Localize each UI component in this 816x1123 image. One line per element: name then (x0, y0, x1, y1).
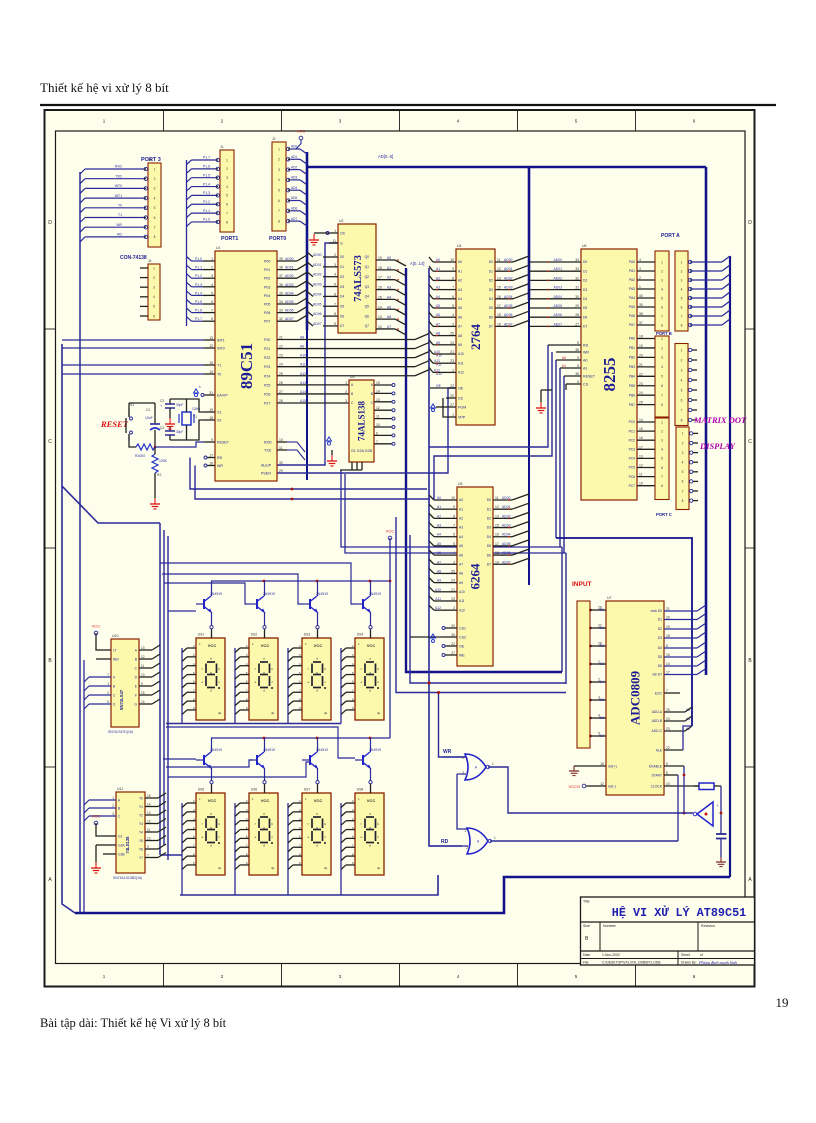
svg-text:30: 30 (575, 295, 579, 299)
svg-text:INT0: INT0 (115, 184, 122, 188)
svg-text:12: 12 (639, 464, 643, 468)
svg-text:A5: A5 (458, 306, 462, 310)
svg-text:22: 22 (451, 642, 455, 646)
wire T0 row (62, 373, 204, 375)
pin OE of 6264 (445, 645, 457, 647)
svg-text:1: 1 (639, 285, 641, 289)
wire clock RC node (720, 786, 722, 834)
svg-text:IN6: IN6 (599, 716, 604, 720)
pin P0.5 of 89C51 with AD05 net (277, 303, 297, 305)
seven segment display DS4 (355, 638, 384, 720)
wire PORT1 pin 7 (192, 212, 217, 214)
svg-text:5: 5 (661, 296, 663, 300)
svg-text:1: 1 (452, 413, 454, 417)
pin G of 74ALS573 (329, 242, 338, 244)
svg-text:AD00: AD00 (285, 257, 294, 261)
svg-text:6: 6 (226, 203, 228, 207)
pin Y4 of U11 (145, 831, 158, 833)
svg-text:13: 13 (147, 811, 151, 815)
pin D2 of 6264 net AD02 (493, 517, 512, 519)
svg-text:A6: A6 (459, 553, 463, 557)
svg-text:3: 3 (661, 278, 663, 282)
svg-text:2: 2 (334, 253, 336, 257)
svg-text:23: 23 (639, 382, 643, 386)
svg-text:8: 8 (211, 317, 213, 321)
svg-text:7: 7 (226, 211, 228, 215)
svg-text:11: 11 (639, 473, 643, 477)
svg-text:2: 2 (345, 390, 347, 394)
svg-text:AD1: AD1 (291, 155, 297, 159)
pin A4 of 6264 (442, 536, 457, 538)
pin T0 of 89C51 (204, 373, 215, 375)
svg-text:AD05: AD05 (285, 300, 294, 304)
svg-text:1: 1 (661, 260, 663, 264)
pin ADD-C of ADC0809 (664, 730, 685, 732)
svg-text:T0: T0 (118, 204, 122, 208)
svg-text:RD: RD (441, 839, 449, 845)
svg-text:f: f (202, 822, 203, 826)
svg-text:6: 6 (453, 533, 455, 537)
svg-text:10: 10 (279, 438, 283, 442)
svg-text:2: 2 (452, 368, 454, 372)
svg-text:8: 8 (666, 644, 668, 648)
svg-text:U6: U6 (582, 244, 587, 248)
wire PORT0 pin 1 AD00 (291, 148, 301, 150)
svg-text:1: 1 (334, 229, 336, 233)
pin D5 of 6264 net AD05 (493, 545, 512, 547)
svg-text:P27: P27 (264, 401, 270, 405)
wire 8255 RD route (429, 345, 548, 447)
svg-text:19: 19 (497, 322, 501, 326)
wire 8255 to ADC address select route (556, 538, 692, 726)
svg-text:D4: D4 (489, 297, 493, 301)
svg-text:20: 20 (639, 353, 643, 357)
pin PB5 of 8255 (637, 385, 655, 387)
svg-text:A12: A12 (300, 372, 306, 376)
svg-text:15: 15 (495, 524, 499, 528)
svg-text:6: 6 (154, 216, 156, 220)
svg-text:P25: P25 (264, 383, 270, 387)
OR gate U8A for WR (465, 754, 486, 780)
svg-text:5: 5 (452, 304, 454, 308)
pin D0 of 6264 net AD00 (493, 499, 512, 501)
svg-text:25: 25 (666, 708, 670, 712)
svg-text:Number: Number (603, 924, 617, 928)
pin ALE of ADC0809 (664, 749, 683, 751)
pin D4 input of 74ALS573 (323, 295, 338, 297)
svg-text:AD07: AD07 (285, 317, 294, 321)
svg-text:4: 4 (661, 365, 663, 369)
pin PB7 of 8255 (637, 404, 655, 406)
svg-text:10: 10 (639, 482, 643, 486)
pin f output of U10 (139, 694, 152, 696)
svg-text:20: 20 (666, 616, 670, 620)
svg-text:AD01: AD01 (313, 263, 322, 267)
svg-text:IN0: IN0 (599, 608, 604, 612)
svg-text:8: 8 (682, 499, 684, 503)
svg-text:PC3: PC3 (629, 448, 636, 452)
svg-text:IN1: IN1 (599, 626, 604, 630)
svg-text:14: 14 (141, 700, 145, 704)
pin PB3 of 8255 (637, 366, 655, 368)
svg-text:8: 8 (334, 312, 336, 316)
svg-text:G2B: G2B (118, 852, 125, 856)
svg-text:D3: D3 (583, 288, 587, 292)
sheet inner border (56, 131, 746, 964)
svg-text:25: 25 (451, 569, 455, 573)
svg-text:ref(+): ref(+) (608, 765, 617, 769)
svg-text:PSEN: PSEN (261, 472, 271, 476)
svg-text:16: 16 (495, 533, 499, 537)
wire T1 row (62, 364, 204, 366)
svg-text:7: 7 (154, 226, 156, 230)
svg-text:R2: R2 (157, 473, 161, 477)
svg-text:17: 17 (639, 445, 643, 449)
svg-text:31: 31 (575, 286, 579, 290)
svg-text:8: 8 (681, 323, 683, 327)
pin PA5 of 8255 (637, 306, 655, 308)
pin D4 of 6264 net AD04 (493, 536, 512, 538)
svg-text:PB3: PB3 (629, 365, 635, 369)
pin CS1 of 6264 (445, 627, 457, 629)
svg-text:1: 1 (681, 260, 683, 264)
pin P1.6 of 89C51 (203, 312, 215, 314)
svg-text:5: 5 (681, 388, 683, 392)
svg-text:D5: D5 (340, 304, 344, 308)
pin P0.3 of 89C51 with AD03 net (277, 286, 297, 288)
svg-text:D6: D6 (489, 315, 493, 319)
svg-text:6: 6 (334, 292, 336, 296)
pin EA/VP of 89C51 (204, 394, 215, 396)
svg-text:3: 3 (112, 812, 114, 816)
svg-text:Y0: Y0 (139, 796, 143, 800)
svg-text:AD00: AD00 (313, 253, 322, 257)
svg-text:SN74LS47D(16): SN74LS47D(16) (108, 730, 133, 734)
svg-text:15: 15 (147, 794, 151, 798)
svg-text:AD04: AD04 (285, 291, 294, 295)
svg-text:7: 7 (453, 524, 455, 528)
svg-text:28: 28 (575, 313, 579, 317)
svg-text:PB0: PB0 (629, 337, 635, 341)
pin Q0 output of 74ALS573 net A0 (376, 259, 395, 261)
svg-text:31: 31 (209, 391, 213, 395)
svg-text:Q2: Q2 (365, 275, 370, 279)
svg-text:24: 24 (666, 717, 670, 721)
svg-text:2: 2 (107, 691, 109, 695)
svg-text:13: 13 (141, 646, 145, 650)
svg-text:OE: OE (436, 384, 442, 388)
svg-text:C2: C2 (160, 399, 164, 403)
svg-text:A3: A3 (458, 288, 462, 292)
svg-text:Y3: Y3 (139, 822, 143, 826)
svg-text:3: 3 (211, 274, 213, 278)
seven segment display DS2 (249, 638, 278, 720)
svg-text:D4: D4 (487, 535, 491, 539)
wire PORT0 pin 8 AD07 (291, 220, 301, 222)
svg-text:f: f (202, 667, 203, 671)
pin d output of U10 (139, 676, 152, 678)
svg-text:7: 7 (682, 489, 684, 493)
svg-text:4: 4 (682, 461, 684, 465)
svg-text:19: 19 (209, 408, 213, 412)
base feed wires row 1 (168, 610, 196, 612)
svg-text:AD06: AD06 (504, 313, 513, 317)
pin D6 output of ADC0809 (664, 665, 697, 667)
pin B of U10 (89, 685, 111, 687)
svg-text:P06: P06 (264, 311, 270, 315)
svg-text:18: 18 (666, 634, 670, 638)
svg-text:11: 11 (141, 664, 145, 668)
svg-text:8: 8 (278, 219, 280, 223)
wire PORT1 pin 6 (192, 203, 217, 205)
svg-text:3: 3 (278, 168, 280, 172)
svg-text:X1: X1 (217, 411, 221, 415)
svg-text:4: 4 (639, 258, 641, 262)
pin PC3 of 8255 (637, 448, 655, 450)
svg-text:Date: Date (583, 953, 590, 957)
svg-text:PA5: PA5 (629, 305, 635, 309)
svg-text:P1.6: P1.6 (203, 165, 210, 169)
pin OE of 2764 (430, 387, 456, 389)
wire WR gate inputs (443, 756, 466, 758)
svg-text:5: 5 (226, 194, 228, 198)
pin RESET of 8255 (564, 375, 581, 377)
svg-text:PORT0: PORT0 (269, 236, 286, 242)
svg-text:16: 16 (209, 462, 213, 466)
svg-text:D1: D1 (658, 618, 662, 622)
pin g output of U10 (139, 703, 152, 705)
svg-text:8: 8 (154, 235, 156, 239)
pin PB6 of 8255 (637, 394, 655, 396)
pin Y2 of U11 (145, 814, 158, 816)
wire A-bus second vertical (429, 268, 462, 846)
pin P0.2 of 89C51 with AD02 net (277, 277, 297, 279)
pin C of U10 (89, 694, 111, 696)
sheet background (45, 110, 755, 987)
svg-text:G1 G2A G2B: G1 G2A G2B (351, 449, 373, 453)
ADC U7 ADC0809 (606, 601, 664, 795)
pin C of U11 (89, 815, 116, 817)
svg-text:6: 6 (661, 305, 663, 309)
PPI U6 8255 (581, 249, 637, 500)
pin A12 of 2764 (441, 371, 456, 373)
svg-text:VCC: VCC (314, 798, 323, 803)
svg-text:9: 9 (334, 322, 336, 326)
svg-text:f: f (361, 822, 362, 826)
pin RESET of 89C51 (204, 441, 215, 443)
svg-text:D0: D0 (487, 498, 491, 502)
svg-text:WR: WR (116, 223, 122, 227)
svg-text:MATRIX DOT: MATRIX DOT (693, 415, 747, 425)
svg-text:P1.7: P1.7 (203, 156, 210, 160)
EPROM U4 2764 (456, 249, 495, 425)
svg-text:7: 7 (681, 314, 683, 318)
pin CLOCK of ADC0809 (664, 785, 699, 787)
pin PC5 of 8255 (637, 467, 655, 469)
svg-text:Y7: Y7 (139, 856, 143, 860)
svg-text:7: 7 (661, 475, 663, 479)
svg-text:ALE: ALE (656, 749, 663, 753)
wire WR-gate feed vertical (439, 693, 466, 758)
svg-text:A0: A0 (583, 359, 587, 363)
svg-text:A10: A10 (459, 590, 465, 594)
seven segment display DS5 (196, 793, 225, 875)
pin A11 of 6264 (442, 600, 457, 602)
svg-text:P1.0: P1.0 (203, 218, 210, 222)
svg-text:15: 15 (209, 361, 213, 365)
svg-text:AD[0..8]: AD[0..8] (378, 154, 393, 159)
ground at clock cap (720, 857, 722, 862)
svg-text:4: 4 (211, 283, 213, 287)
svg-text:HỆ VI XỬ LÝ AT89C51: HỆ VI XỬ LÝ AT89C51 (612, 906, 747, 920)
svg-text:PA6: PA6 (629, 314, 635, 318)
wire AD bus top horizontal (307, 166, 706, 169)
svg-text:1: 1 (661, 337, 663, 341)
pin PA4 of 8255 (637, 297, 655, 299)
svg-text:74ALS138: 74ALS138 (357, 401, 367, 442)
svg-text:P1.3: P1.3 (203, 191, 210, 195)
pin A1 of 6264 (442, 508, 457, 510)
pin PA3 of 8255 (637, 288, 655, 290)
latch U2 74ALS573 (338, 224, 376, 333)
pin D4 of 8255 net AD04 (563, 298, 581, 300)
resistor R3 at ADC clock (699, 783, 714, 790)
pin P0.0 of 89C51 with AD00 net (277, 260, 297, 262)
svg-text:DS3: DS3 (304, 633, 310, 637)
pin Y3 of U11 (145, 823, 158, 825)
svg-text:Sheet: Sheet (681, 953, 690, 957)
wire RD gate output to ADC start (490, 840, 678, 842)
svg-text:PC5: PC5 (629, 466, 636, 470)
pin Y7 of U11 (145, 857, 158, 859)
wire ENABLE vertical to opamp line (683, 766, 685, 813)
wire PORT0 pin 7 AD06 (291, 210, 301, 212)
svg-text:AD2: AD2 (291, 165, 297, 169)
wire ALE feed (683, 726, 692, 750)
header underline (40, 104, 776, 106)
svg-text:9: 9 (211, 438, 213, 442)
pin Y5 of 74ALS138 (374, 426, 392, 428)
svg-text:4: 4 (226, 185, 228, 189)
svg-text:6: 6 (153, 314, 155, 318)
svg-text:36: 36 (279, 283, 283, 287)
pin Y1 of U11 (145, 806, 158, 808)
wire PORT3 pin 3 INT0 (85, 187, 144, 189)
svg-text:G1: G1 (118, 834, 123, 838)
svg-text:PA3: PA3 (629, 287, 635, 291)
svg-text:PA1: PA1 (629, 269, 635, 273)
wire port A fan 4 (691, 297, 722, 299)
svg-text:D0: D0 (489, 260, 493, 264)
svg-text:21: 21 (666, 607, 670, 611)
pin ref- of ADC0809 with VCCO (592, 785, 606, 787)
svg-text:f: f (308, 822, 309, 826)
svg-text:A13: A13 (300, 381, 306, 385)
svg-text:3: 3 (682, 451, 684, 455)
pin OC of 74ALS573 (329, 232, 338, 234)
wire 6264 wrap line 3 (396, 517, 566, 693)
wire PORT3 pin 1 RXD (85, 168, 144, 170)
pin PC6 of 8255 (637, 476, 655, 478)
svg-text:A0: A0 (458, 260, 462, 264)
svg-text:AD02: AD02 (504, 276, 513, 280)
wire OC to ground (320, 232, 329, 234)
svg-text:PB4: PB4 (629, 375, 635, 379)
svg-text:D4: D4 (340, 295, 344, 299)
svg-text:J1: J1 (220, 145, 224, 149)
svg-text:AD07: AD07 (313, 322, 322, 326)
svg-text:5: 5 (577, 341, 579, 345)
ground at 8255 area (540, 402, 542, 408)
pin X1 of 89C51 (204, 411, 215, 413)
pin D7 output of ADC0809 (664, 674, 697, 676)
svg-text:DS6: DS6 (251, 788, 257, 792)
svg-text:RESET: RESET (583, 375, 596, 379)
svg-text:19: 19 (378, 256, 382, 260)
pin P0.6 of 89C51 with AD06 net (277, 312, 297, 314)
vcc arrow at 6264 (431, 634, 436, 638)
pin PC2 of 8255 (637, 439, 655, 441)
svg-text:2: 2 (278, 158, 280, 162)
svg-text:3: 3 (153, 286, 155, 290)
pin D1 of 6264 net AD01 (493, 508, 512, 510)
svg-text:G: G (340, 242, 343, 246)
svg-text:2: 2 (153, 276, 155, 280)
svg-text:Revision: Revision (701, 924, 715, 928)
wire PORT3 pin 6 T1 (85, 217, 144, 219)
transistor Q4 2N4919 (362, 599, 364, 609)
svg-text:R1000: R1000 (135, 454, 145, 458)
svg-text:5: 5 (278, 189, 280, 193)
svg-text:5: 5 (681, 296, 683, 300)
svg-text:D5: D5 (658, 655, 662, 659)
svg-text:6: 6 (661, 466, 663, 470)
pin WE of 6264 (445, 654, 457, 656)
wire reset top (128, 403, 130, 409)
svg-text:Drawn By:: Drawn By: (681, 961, 697, 965)
pin Y4 of 74ALS138 (374, 418, 392, 420)
svg-text:AD02: AD02 (502, 514, 511, 518)
svg-text:14: 14 (666, 662, 670, 666)
pin RXD of 89C51 (277, 441, 287, 443)
svg-text:U4: U4 (457, 244, 462, 248)
wire RD gate input2 (429, 845, 468, 847)
svg-text:8: 8 (681, 418, 683, 422)
svg-text:6: 6 (681, 305, 683, 309)
wire PORT0 pin 3 AD02 (291, 169, 301, 171)
svg-text:10: 10 (147, 837, 151, 841)
wire 8255 WR route (434, 352, 552, 499)
svg-text:24: 24 (451, 579, 455, 583)
wire 7seg bottom return (160, 854, 182, 856)
svg-text:Q1: Q1 (365, 265, 370, 269)
pin A2 of 6264 (442, 517, 457, 519)
svg-text:21: 21 (451, 588, 455, 592)
svg-text:19: 19 (666, 625, 670, 629)
wire left vertical node to 7seg region (62, 344, 160, 523)
pin A10 of 2764 (441, 353, 456, 355)
svg-text:9: 9 (452, 267, 454, 271)
pin Y7 of 74ALS138 (374, 443, 392, 445)
wire PORT1 pin 3 (192, 177, 217, 179)
pin P1.2 of 89C51 (203, 277, 215, 279)
svg-text:11: 11 (376, 415, 380, 419)
pin D0 output of ADC0809 (664, 610, 697, 612)
svg-text:START: START (651, 774, 662, 778)
wire AD bus right vertical drop to ADC outputs (705, 167, 708, 675)
svg-text:WR: WR (583, 351, 589, 355)
svg-text:T1: T1 (118, 213, 122, 217)
